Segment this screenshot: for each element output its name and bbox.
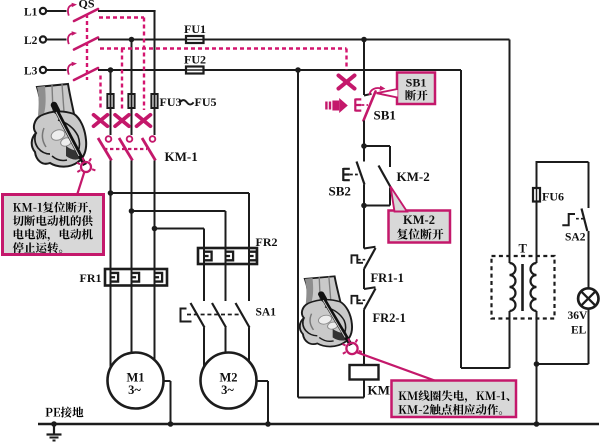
node branch c2 bbox=[129, 208, 135, 214]
svg-text:FU5: FU5 bbox=[195, 95, 217, 109]
svg-text:FR2-1: FR2-1 bbox=[373, 311, 406, 325]
svg-text:T: T bbox=[519, 242, 528, 256]
transformer T dashed box bbox=[492, 256, 555, 319]
wire control right rail bbox=[460, 70, 462, 368]
wire QS trip dash L1 bbox=[99, 16, 144, 18]
wire L1 to QS bbox=[46, 10, 66, 12]
wire conductor c3 through fuse bbox=[154, 11, 156, 135]
switch SA1 bbox=[191, 303, 205, 328]
wire conductor c3 mid bbox=[154, 161, 156, 270]
X break mark phase 3 bbox=[137, 115, 151, 126]
wire KM-2 branch bottom bbox=[389, 188, 391, 206]
svg-text:QS: QS bbox=[79, 0, 95, 11]
hand pointing at QS bbox=[32, 84, 86, 167]
node M1 earth junction bbox=[168, 421, 174, 427]
X break mark phase 1 bbox=[94, 115, 108, 126]
wire L3 to QS bbox=[46, 69, 66, 71]
wire M2 c1 to SA1 bbox=[203, 241, 205, 301]
svg-text:FU2: FU2 bbox=[184, 53, 206, 67]
wire conductor c1 through fuse bbox=[110, 70, 112, 135]
wire FR1-1 to FR2-1 bbox=[363, 269, 365, 289]
motor M2 bbox=[201, 353, 257, 409]
node secondary earth junction bbox=[534, 421, 540, 427]
node secondary bottom junction bbox=[534, 361, 540, 367]
wire M2 earth bbox=[257, 380, 269, 382]
wire M2 c3 to motor bbox=[248, 328, 250, 364]
wire L3 after QS to FU2 bbox=[98, 69, 186, 71]
node B junction bbox=[361, 203, 367, 209]
pushbutton SB2 (start) bbox=[363, 146, 365, 162]
fuse FU5 bbox=[151, 94, 157, 108]
svg-text:FU6: FU6 bbox=[542, 190, 564, 204]
svg-text:L2: L2 bbox=[24, 35, 38, 47]
fuse FU4 bbox=[128, 94, 134, 108]
svg-text:L3: L3 bbox=[24, 66, 38, 78]
svg-text:EL: EL bbox=[571, 325, 587, 337]
wire trip dash to SB1 bbox=[345, 49, 347, 71]
svg-text:KM: KM bbox=[368, 383, 390, 398]
wire conductor c2 upper bbox=[131, 40, 133, 95]
transformer T secondary winding bbox=[531, 263, 537, 311]
contactor KM-1 main contacts bbox=[106, 136, 112, 142]
svg-text:SB1: SB1 bbox=[406, 76, 427, 90]
wire conductor c2 mid bbox=[131, 161, 133, 270]
wire L2 after QS to FU1 bbox=[98, 39, 186, 41]
svg-text:FR1: FR1 bbox=[80, 271, 102, 285]
svg-text:KM-2: KM-2 bbox=[397, 169, 430, 184]
wire c1 to M1 bbox=[110, 262, 112, 368]
switch SA2 bbox=[582, 209, 588, 232]
motor M1 bbox=[108, 353, 164, 409]
wire SA2 to lamp bbox=[588, 231, 590, 289]
callout box KM-2 reset bbox=[389, 211, 451, 243]
svg-text:FR1-1: FR1-1 bbox=[371, 271, 404, 285]
switch QS pole L1 opening arrow bbox=[68, 5, 73, 16]
callout box KM-1 reset bbox=[3, 195, 104, 255]
highlight circle at QS hand bbox=[81, 162, 91, 172]
ground PE symbol bbox=[51, 421, 57, 427]
transformer T primary winding bbox=[510, 263, 516, 311]
callout pointer to KM coil bbox=[356, 352, 436, 381]
wire node B to FR1-1 bbox=[363, 206, 365, 249]
node branch c1 bbox=[108, 190, 114, 196]
wire M1 earth bbox=[164, 380, 171, 382]
svg-text:3~: 3~ bbox=[128, 383, 141, 397]
svg-text:SA2: SA2 bbox=[565, 232, 586, 244]
node branch c3 bbox=[152, 226, 158, 232]
node M2 earth junction bbox=[265, 421, 271, 427]
node junction L2/c2 bbox=[129, 37, 135, 43]
X break mark control bbox=[339, 75, 355, 88]
wire SB1 branch upper bbox=[363, 40, 365, 96]
transformer T core bbox=[521, 264, 524, 311]
wire M2 c1 to motor bbox=[203, 328, 205, 367]
coil KM bbox=[350, 365, 379, 380]
node junction SB1 branch bbox=[361, 37, 367, 43]
node junction control left rail bbox=[295, 67, 301, 73]
svg-text:FR2: FR2 bbox=[256, 235, 278, 249]
svg-text:FU1: FU1 bbox=[184, 22, 206, 36]
X break mark phase 2 bbox=[115, 115, 129, 126]
wire L1 after QS to corner bbox=[98, 10, 156, 12]
wire FU1 line to control/transformer bbox=[204, 39, 510, 41]
wire conductor c1 upper bbox=[110, 70, 112, 94]
wire SB1 to node A bbox=[363, 121, 365, 147]
fuse FU6 bbox=[533, 188, 540, 202]
wire M2 c3 to SA1 bbox=[248, 241, 250, 301]
node A junction bbox=[361, 143, 367, 149]
wire c3 to M1 bbox=[154, 262, 156, 360]
lamp EL bbox=[578, 288, 598, 308]
contact KM-2 (NO, self-hold) bbox=[379, 166, 391, 188]
wire branch c1 to M2 right bbox=[111, 192, 250, 194]
switch QS pole L2 blade bbox=[74, 38, 98, 50]
highlight circle at KM coil bbox=[346, 343, 357, 354]
contact FR1-1 (thermal NC) bbox=[364, 247, 376, 249]
svg-text:FU3: FU3 bbox=[160, 95, 182, 109]
wire M2 c2 to SA1 bbox=[225, 241, 227, 301]
switch QS pole L3 blade bbox=[74, 68, 98, 80]
wire branch c2 to M2 mid bbox=[132, 210, 226, 212]
wire QS mechanical link (dashed) bbox=[86, 14, 88, 80]
switch QS pole L3 opening arrow bbox=[68, 64, 73, 75]
svg-text:KM-2: KM-2 bbox=[403, 213, 435, 227]
thermal relay FR1 bbox=[105, 269, 167, 286]
switch QS pole L2 opening arrow bbox=[68, 33, 73, 44]
wire secondary bottom to earth bbox=[536, 311, 538, 424]
wire c2 to M1 bbox=[131, 262, 133, 353]
callout box KM deenergized bbox=[392, 381, 517, 418]
label PE接地 bbox=[46, 408, 53, 417]
wire transformer primary feed bbox=[509, 40, 511, 264]
callout box SB1 break bbox=[397, 73, 435, 105]
wire FU6 to top rail bbox=[536, 161, 538, 188]
wire branch c3 to M2 left bbox=[155, 228, 205, 230]
wire QS trip dash L3 bbox=[99, 76, 101, 111]
callout pointer to QS circle bbox=[77, 172, 85, 196]
switch QS pole L1 blade bbox=[74, 9, 98, 21]
thermal relay FR2 bbox=[198, 248, 257, 264]
node junction L3/c1 bbox=[108, 67, 114, 73]
wire FR2-1 to KM coil bbox=[363, 310, 365, 366]
wire KM-2 branch top bbox=[364, 145, 390, 147]
svg-text:SB2: SB2 bbox=[329, 184, 351, 199]
wire PE earth bus bbox=[38, 423, 599, 426]
svg-text:36V: 36V bbox=[568, 310, 589, 322]
svg-text:SB1: SB1 bbox=[374, 108, 396, 123]
wire FU2 line to control bbox=[204, 69, 462, 71]
pushbutton SB1 (opening, magenta) bbox=[364, 94, 372, 96]
contact FR2-1 (thermal NC) bbox=[364, 287, 376, 289]
wire conductor c2 through fuse bbox=[131, 70, 133, 135]
svg-text:L1: L1 bbox=[24, 7, 38, 19]
wire lamp to secondary bottom bbox=[588, 309, 590, 364]
wire KM coil to left rail bbox=[363, 380, 365, 398]
svg-text:3~: 3~ bbox=[221, 383, 234, 397]
fuse FU3 bbox=[107, 94, 113, 108]
wire secondary top bbox=[536, 202, 538, 264]
wire L2 to QS bbox=[46, 39, 66, 41]
svg-text:SA1: SA1 bbox=[256, 307, 277, 319]
wire conductor c1 mid bbox=[110, 161, 112, 270]
arrow pointing at SB1 bbox=[325, 98, 348, 113]
wire M2 c2 to motor bbox=[225, 328, 227, 354]
wire QS trip dash L2 bbox=[100, 47, 347, 49]
hand pointing at KM coil bbox=[300, 276, 352, 346]
svg-text:KM-1: KM-1 bbox=[165, 149, 198, 164]
